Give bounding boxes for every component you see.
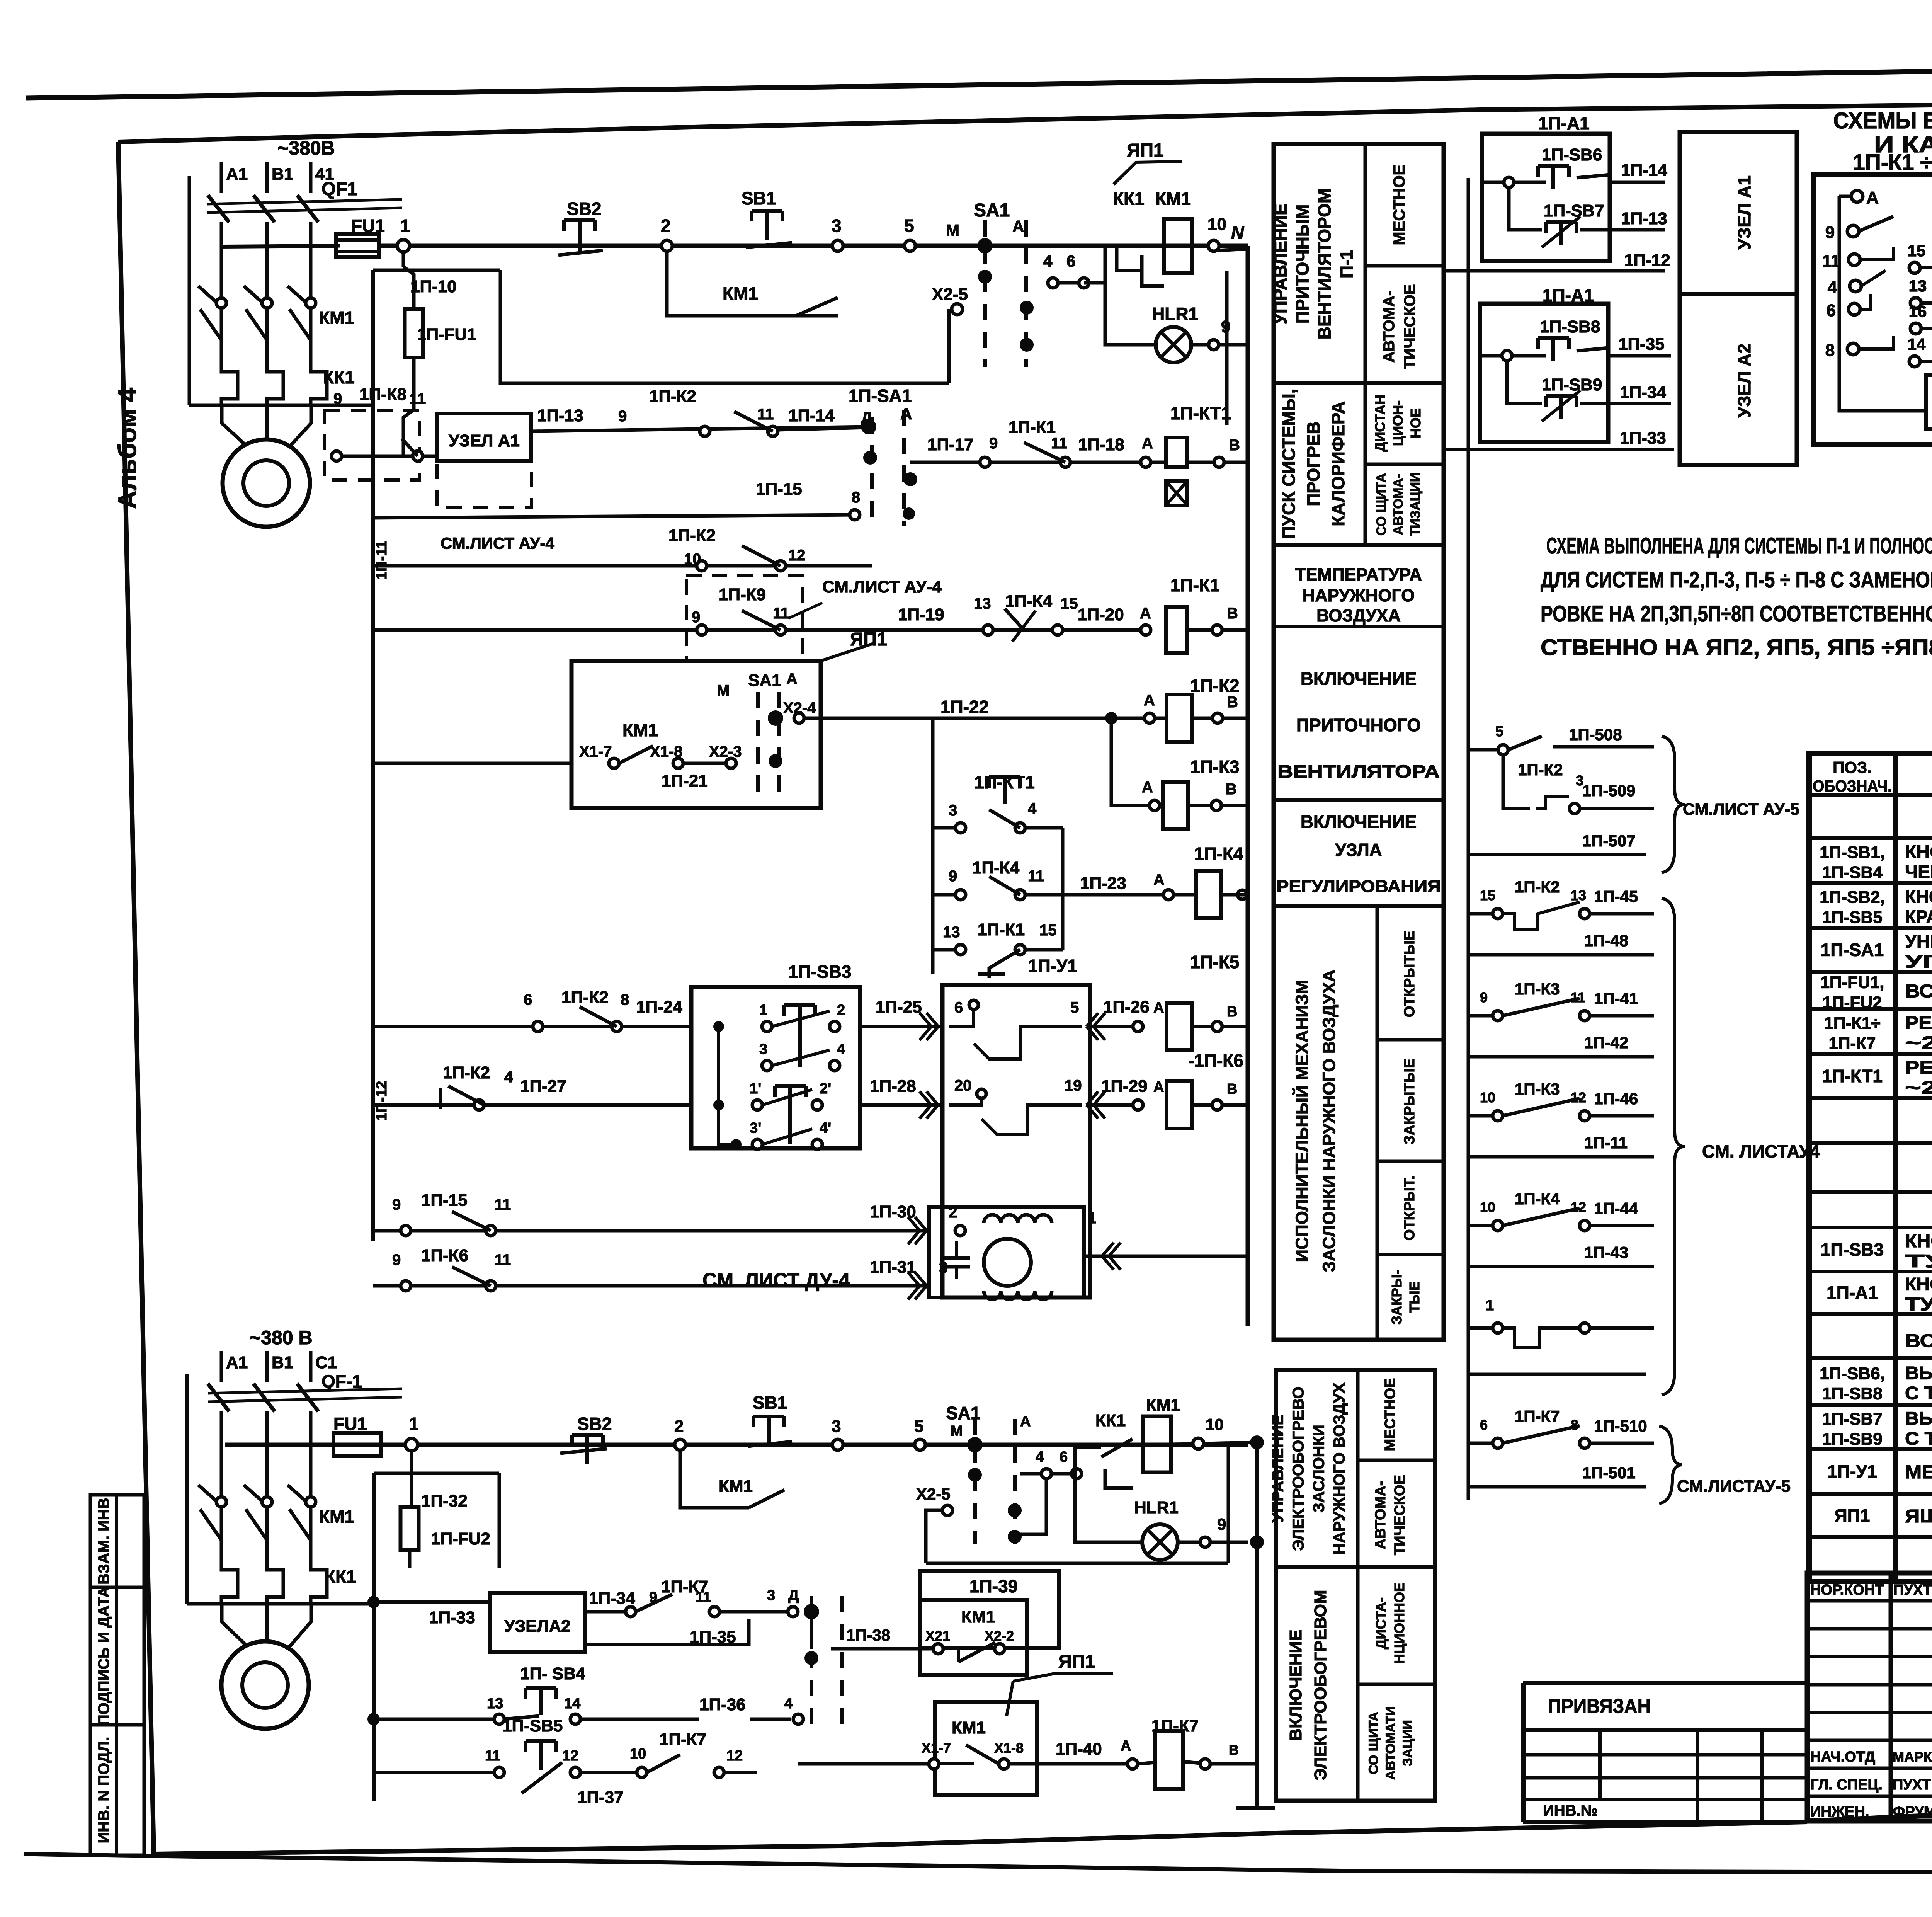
svg-text:4: 4	[504, 1069, 513, 1086]
svg-text:8: 8	[852, 489, 860, 506]
svg-text:КМ1: КМ1	[319, 1507, 354, 1527]
svg-text:1П-14: 1П-14	[1621, 161, 1667, 180]
svg-text:КМ1: КМ1	[723, 283, 758, 303]
svg-text:1П-SВ6: 1П-SВ6	[1542, 145, 1602, 164]
svg-text:6: 6	[1066, 252, 1075, 270]
svg-text:А: А	[1153, 872, 1165, 889]
svg-text:ТИЗАЦИИ: ТИЗАЦИИ	[1408, 473, 1423, 536]
svg-text:15: 15	[1061, 595, 1078, 612]
svg-text:НLR1: НLR1	[1152, 304, 1198, 324]
svg-text:1П-17: 1П-17	[927, 435, 974, 454]
svg-text:1П-40: 1П-40	[1056, 1740, 1102, 1759]
svg-text:ИНВ. N ПОДЛ.: ИНВ. N ПОДЛ.	[95, 1737, 112, 1844]
svg-text:1: 1	[759, 1002, 767, 1018]
svg-text:НОР.КОНТ: НОР.КОНТ	[1810, 1582, 1884, 1598]
svg-text:1П-11: 1П-11	[1584, 1134, 1628, 1152]
svg-text:6: 6	[954, 999, 963, 1016]
svg-text:1П-10: 1П-10	[410, 277, 457, 296]
svg-text:1П-SВ5: 1П-SВ5	[502, 1716, 563, 1735]
svg-text:3: 3	[832, 216, 842, 236]
svg-text:РЕЛЕ ПРОМЕЖУТОЧНОЕ РПУ-2М-0622: РЕЛЕ ПРОМЕЖУТОЧНОЕ РПУ-2М-06222 У3А	[1905, 1012, 1932, 1033]
svg-text:3': 3'	[750, 1120, 761, 1136]
svg-text:ЯП1: ЯП1	[1058, 1651, 1095, 1672]
svg-text:1П-К9: 1П-К9	[719, 585, 766, 604]
svg-text:1П-У1: 1П-У1	[1827, 1461, 1877, 1481]
svg-text:КМ1: КМ1	[1146, 1396, 1180, 1415]
svg-text:12: 12	[1571, 1090, 1586, 1105]
svg-text:10: 10	[1207, 215, 1226, 234]
svg-text:ЯЩИК УПРАВЛЕНИЯ: ЯЩИК УПРАВЛЕНИЯ	[1905, 1506, 1932, 1527]
svg-text:1: 1	[400, 216, 410, 236]
svg-text:А: А	[1020, 1413, 1031, 1430]
svg-text:А: А	[1012, 217, 1024, 235]
svg-text:3: 3	[832, 1417, 841, 1436]
svg-text:Х1-8: Х1-8	[994, 1740, 1024, 1756]
svg-text:СХЕМА ВЫПОЛНЕНА ДЛЯ СИСТЕМЫ: СХЕМА ВЫПОЛНЕНА ДЛЯ СИСТЕМЫ П-1 И ПОЛНОС…	[1546, 533, 1932, 558]
svg-text:1П-34: 1П-34	[589, 1589, 635, 1608]
svg-text:ВСТАВКА ПЛАВКАЯ ВП25-1, 1А: ВСТАВКА ПЛАВКАЯ ВП25-1, 1А ДГО.481.304ТУ	[1905, 981, 1932, 1002]
svg-text:ВЕНТИЛЯТОРОМ: ВЕНТИЛЯТОРОМ	[1315, 189, 1335, 340]
svg-text:УЗЛА: УЗЛА	[1335, 840, 1382, 860]
svg-text:В1: В1	[272, 1353, 293, 1372]
svg-text:А: А	[1142, 435, 1153, 452]
svg-text:А: А	[900, 405, 912, 423]
svg-text:ЗАЦИИ: ЗАЦИИ	[1400, 1720, 1415, 1766]
svg-text:13: 13	[487, 1696, 503, 1712]
svg-text:6: 6	[1060, 1449, 1068, 1465]
svg-text:КНОПКА УПРАВЛЕНИЯ КЕ-01193 ИСП: КНОПКА УПРАВЛЕНИЯ КЕ-01193 ИСП.3 ТОЛКАТЕ…	[1905, 886, 1932, 907]
svg-text:ЯП1: ЯП1	[1127, 140, 1164, 161]
svg-text:1П-К1: 1П-К1	[978, 920, 1025, 939]
svg-text:3: 3	[759, 1041, 767, 1057]
svg-text:КНОПКА УПРАВЛЕНИЯ КЕ-01193 ИСП: КНОПКА УПРАВЛЕНИЯ КЕ-01193 ИСП.1. ТОЛКАТ…	[1905, 841, 1932, 862]
svg-text:1П-501: 1П-501	[1582, 1464, 1636, 1482]
svg-text:1П-SВ1,: 1П-SВ1,	[1820, 843, 1885, 862]
svg-text:АВТОМА-: АВТОМА-	[1372, 1481, 1389, 1549]
svg-text:1П-FU2: 1П-FU2	[431, 1529, 490, 1548]
svg-text:9: 9	[392, 1251, 401, 1268]
svg-text:19: 19	[1065, 1077, 1082, 1094]
svg-text:Х2-5: Х2-5	[932, 285, 968, 304]
svg-text:ВКЛЮЧЕНИЕ: ВКЛЮЧЕНИЕ	[1301, 669, 1417, 689]
svg-text:ДИСТА-: ДИСТА-	[1373, 1597, 1389, 1649]
svg-text:5: 5	[1070, 999, 1079, 1016]
svg-text:9: 9	[618, 408, 627, 425]
svg-text:ВЗАМ. ИНВ: ВЗАМ. ИНВ	[95, 1498, 112, 1584]
svg-text:А: А	[1142, 779, 1153, 796]
svg-text:1П-24: 1П-24	[636, 998, 682, 1016]
svg-text:1П-К2: 1П-К2	[561, 988, 609, 1007]
svg-text:9: 9	[1825, 223, 1835, 242]
svg-text:ОТКРЫТ.: ОТКРЫТ.	[1401, 1176, 1418, 1241]
svg-text:РОВКЕ НА 2П,3П,5П÷8П СООТВЕТСТ: РОВКЕ НА 2П,3П,5П÷8П СООТВЕТСТВЕННО , А …	[1541, 601, 1932, 627]
svg-text:1П-34: 1П-34	[1620, 383, 1666, 402]
svg-text:FU1: FU1	[351, 216, 385, 236]
svg-text:1П-К4: 1П-К4	[1194, 844, 1243, 864]
svg-text:~380В: ~380В	[277, 137, 335, 159]
svg-text:А: А	[1140, 605, 1151, 622]
svg-text:4: 4	[837, 1041, 845, 1057]
svg-text:16: 16	[1909, 302, 1927, 320]
svg-text:СМ.ЛИСТ АУ-4: СМ.ЛИСТ АУ-4	[822, 577, 942, 596]
svg-text:ВЫКЛЮЧАТЕЛЬ КНОПОЧНЫЙ ТИПА К: ВЫКЛЮЧАТЕЛЬ КНОПОЧНЫЙ ТИПА КЕ-011	[1905, 1408, 1932, 1428]
svg-text:1П-К6: 1П-К6	[421, 1246, 468, 1265]
svg-text:1П-14: 1П-14	[788, 406, 835, 425]
svg-text:1П-К2: 1П-К2	[1190, 676, 1240, 696]
svg-text:В: В	[1227, 1081, 1237, 1097]
svg-text:1П-SА1: 1П-SА1	[1821, 940, 1884, 960]
svg-text:1П-48: 1П-48	[1584, 931, 1628, 950]
svg-text:SВ1: SВ1	[753, 1393, 787, 1413]
svg-text:N: N	[1231, 223, 1244, 243]
svg-text:ТЫЕ: ТЫЕ	[1406, 1281, 1422, 1313]
svg-text:АВТОМАТИ: АВТОМАТИ	[1383, 1706, 1398, 1780]
svg-text:SВ2: SВ2	[577, 1414, 612, 1434]
svg-text:~380 В: ~380 В	[250, 1327, 313, 1348]
svg-text:МЕСТНОЕ: МЕСТНОЕ	[1390, 165, 1408, 245]
svg-text:С ТОЛКАТЕЛЕМ КРАСНОГО ЦВЕТА: С ТОЛКАТЕЛЕМ КРАСНОГО ЦВЕТА , ИСП.3	[1905, 1428, 1932, 1449]
svg-text:А1: А1	[226, 1353, 248, 1372]
svg-text:ТИЧЕСКОЕ: ТИЧЕСКОЕ	[1392, 1475, 1408, 1555]
svg-text:8: 8	[621, 991, 629, 1008]
svg-text:1П-К3: 1П-К3	[1515, 980, 1560, 998]
svg-text:А: А	[786, 671, 798, 688]
svg-text:КМ1: КМ1	[952, 1718, 986, 1737]
svg-text:1П-К2: 1П-К2	[649, 387, 696, 406]
svg-text:1П-К7: 1П-К7	[659, 1730, 706, 1749]
svg-text:8: 8	[1571, 1417, 1578, 1433]
svg-text:1П-26: 1П-26	[1103, 998, 1150, 1016]
svg-text:МАРКУЦКИЙ: МАРКУЦКИЙ	[1893, 1748, 1932, 1765]
svg-text:3: 3	[939, 1259, 947, 1276]
svg-text:ОБОЗНАЧ.: ОБОЗНАЧ.	[1813, 777, 1892, 795]
svg-text:А: А	[1153, 1000, 1164, 1016]
svg-text:КМ1: КМ1	[719, 1477, 753, 1496]
svg-text:КНОПОЧНЫЙ ПОСТ УПРАВЛЕНИЯ ПКУ1: КНОПОЧНЫЙ ПОСТ УПРАВЛЕНИЯ ПКУ15-21.331-5…	[1905, 1274, 1932, 1294]
svg-text:2: 2	[674, 1417, 684, 1436]
svg-text:КМ1: КМ1	[622, 720, 658, 740]
svg-text:1П-FU2: 1П-FU2	[1823, 993, 1882, 1012]
svg-text:1П-SВ8: 1П-SВ8	[1822, 1384, 1882, 1403]
svg-text:9: 9	[1217, 1515, 1226, 1533]
svg-text:1П-21: 1П-21	[662, 771, 708, 790]
svg-text:1П-45: 1П-45	[1594, 887, 1638, 906]
svg-text:СМ.ЛИСТ АУ-4: СМ.ЛИСТ АУ-4	[440, 534, 555, 552]
svg-text:КМ1: КМ1	[961, 1607, 995, 1626]
svg-text:11: 11	[1822, 252, 1840, 271]
svg-text:1П-КТ1: 1П-КТ1	[1170, 403, 1231, 423]
svg-text:ПРОГРЕВ: ПРОГРЕВ	[1303, 421, 1323, 506]
svg-text:А: А	[1144, 692, 1155, 709]
svg-text:1П-SВ3: 1П-SВ3	[788, 962, 851, 982]
svg-text:В: В	[1227, 605, 1238, 622]
svg-text:12: 12	[726, 1748, 743, 1764]
svg-text:1П-А1: 1П-А1	[1538, 113, 1590, 133]
svg-text:СХЕМЫ ВЫВОДОВ КОНТАКТОВ: СХЕМЫ ВЫВОДОВ КОНТАКТОВ	[1833, 108, 1932, 133]
svg-text:ДЛЯ СИСТЕМ П-2,П-3, П-5 ÷ П-8: ДЛЯ СИСТЕМ П-2,П-3, П-5 ÷ П-8 С ЗАМЕНОЙ …	[1541, 567, 1932, 592]
svg-text:КК1: КК1	[325, 1566, 356, 1587]
svg-text:Х1-7: Х1-7	[922, 1740, 951, 1756]
svg-text:ВКЛЮЧЕНИЕ: ВКЛЮЧЕНИЕ	[1286, 1629, 1305, 1740]
svg-text:Х2-5: Х2-5	[916, 1485, 951, 1503]
svg-text:9: 9	[392, 1196, 401, 1213]
svg-text:С ТОЛКАТЕЛЕМ ЧЕРНОГО ЦВЕТА,: С ТОЛКАТЕЛЕМ ЧЕРНОГО ЦВЕТА, ИСП.1	[1905, 1383, 1932, 1403]
svg-text:11: 11	[485, 1748, 500, 1764]
svg-text:11: 11	[757, 406, 774, 423]
svg-text:ЗАСЛОНКИ НАРУЖНОГО ВОЗДУХА: ЗАСЛОНКИ НАРУЖНОГО ВОЗДУХА	[1319, 969, 1339, 1272]
svg-text:1П-FU1,: 1П-FU1,	[1820, 973, 1884, 992]
svg-text:6: 6	[524, 991, 532, 1008]
svg-text:14: 14	[1908, 335, 1926, 353]
svg-text:9: 9	[989, 435, 998, 452]
svg-text:1П-20: 1П-20	[1078, 605, 1124, 624]
svg-text:15: 15	[1480, 887, 1495, 903]
svg-text:1П- SВ4: 1П- SВ4	[520, 1664, 585, 1683]
svg-text:КМ1: КМ1	[319, 308, 354, 328]
svg-text:НАЧ.ОТД: НАЧ.ОТД	[1810, 1749, 1875, 1765]
svg-text:1П-К1: 1П-К1	[1170, 575, 1220, 595]
svg-text:1П-509: 1П-509	[1582, 781, 1636, 800]
svg-text:1': 1'	[750, 1081, 761, 1097]
svg-text:Х2-3: Х2-3	[709, 743, 742, 760]
svg-text:1П-38: 1П-38	[846, 1626, 890, 1644]
svg-text:ЗАКРЫТЫЕ: ЗАКРЫТЫЕ	[1401, 1059, 1418, 1145]
svg-text:КРАСНОГО ЦВЕТА, НАДПИСЬ„СТОП“.: КРАСНОГО ЦВЕТА, НАДПИСЬ„СТОП“. ТУ16-642.…	[1905, 906, 1932, 927]
svg-text:СМ.ЛИСТАУ-5: СМ.ЛИСТАУ-5	[1677, 1477, 1791, 1496]
svg-text:А: А	[1866, 188, 1879, 207]
svg-text:УПРАВЛЕНИЕ: УПРАВЛЕНИЕ	[1269, 1415, 1287, 1522]
svg-text:5: 5	[1495, 724, 1503, 740]
svg-text:ВЫКЛЮЧАТЕЛЬ КНОПОЧНЫЙ ТИПА К: ВЫКЛЮЧАТЕЛЬ КНОПОЧНЫЙ ТИПА КЕ-011	[1905, 1363, 1932, 1383]
svg-text:SА1: SА1	[974, 200, 1010, 221]
svg-text:11: 11	[1028, 868, 1044, 885]
svg-text:АВТОМА-: АВТОМА-	[1381, 291, 1398, 363]
svg-text:Х1-8: Х1-8	[650, 743, 683, 760]
svg-text:6: 6	[1480, 1417, 1488, 1433]
svg-text:8: 8	[1825, 341, 1835, 360]
svg-text:1П-SВ2,: 1П-SВ2,	[1820, 888, 1885, 907]
svg-text:ТУ16-642.006-83: ТУ16-642.006-83	[1905, 1251, 1932, 1271]
svg-text:11: 11	[773, 605, 789, 622]
svg-text:1П-36: 1П-36	[699, 1695, 746, 1714]
svg-text:1П-43: 1П-43	[1584, 1243, 1628, 1262]
svg-text:11: 11	[495, 1196, 511, 1213]
svg-text:1П-К4: 1П-К4	[1005, 592, 1053, 611]
svg-text:П-1: П-1	[1337, 250, 1357, 278]
svg-text:А: А	[1153, 1079, 1164, 1095]
svg-text:1П-SВ9: 1П-SВ9	[1822, 1430, 1882, 1449]
svg-text:2': 2'	[820, 1081, 831, 1097]
svg-text:1П-42: 1П-42	[1584, 1033, 1628, 1052]
svg-text:ПРИТОЧНЫМ: ПРИТОЧНЫМ	[1293, 204, 1313, 323]
svg-text:1П-508: 1П-508	[1569, 725, 1622, 744]
svg-text:4': 4'	[820, 1120, 831, 1136]
svg-text:5: 5	[914, 1417, 923, 1436]
svg-text:Д: Д	[788, 1587, 799, 1604]
svg-text:1П-44: 1П-44	[1594, 1199, 1638, 1217]
svg-text:ПРИВЯЗАН: ПРИВЯЗАН	[1548, 1695, 1651, 1718]
svg-text:1П-510: 1П-510	[1594, 1417, 1647, 1435]
svg-text:1П-К1÷: 1П-К1÷	[1824, 1014, 1880, 1033]
svg-text:1П-15: 1П-15	[756, 480, 802, 499]
svg-text:1П-41: 1П-41	[1594, 989, 1638, 1008]
svg-text:КК1: КК1	[1095, 1411, 1126, 1430]
svg-text:5: 5	[904, 216, 914, 236]
svg-text:ПОДПИСЬ И ДАТА: ПОДПИСЬ И ДАТА	[95, 1587, 112, 1726]
svg-text:ЯП1: ЯП1	[1835, 1505, 1870, 1525]
svg-text:1П-13: 1П-13	[1621, 209, 1667, 228]
svg-text:Альбом 4: Альбом 4	[113, 388, 141, 509]
svg-text:14: 14	[564, 1696, 580, 1712]
svg-text:3: 3	[767, 1587, 775, 1604]
svg-text:1П-27: 1П-27	[520, 1077, 566, 1096]
svg-text:ВСТРАИВАЕМЫМИ АППАРАТАМИ:: ВСТРАИВАЕМЫМИ АППАРАТАМИ:	[1905, 1330, 1932, 1351]
svg-text:РЕГУЛИРОВАНИЯ: РЕГУЛИРОВАНИЯ	[1277, 877, 1441, 896]
svg-text:НОЕ: НОЕ	[1408, 408, 1423, 438]
svg-text:10: 10	[684, 551, 701, 568]
svg-text:SА1: SА1	[748, 671, 781, 690]
svg-text:1П-КТ1: 1П-КТ1	[1822, 1066, 1883, 1086]
svg-text:1П-35: 1П-35	[1618, 335, 1665, 354]
svg-text:УП-5312 С86 ТУ16-524.074-: УП-5312 С86 ТУ16-524.074-75	[1905, 951, 1932, 972]
svg-text:В: В	[1227, 694, 1238, 711]
svg-text:ЦИОН-: ЦИОН-	[1390, 400, 1406, 446]
svg-text:9: 9	[333, 390, 342, 407]
svg-text:УЗЕЛ А2: УЗЕЛ А2	[1734, 344, 1754, 418]
svg-text:МЕСТНОЕ: МЕСТНОЕ	[1382, 1378, 1398, 1451]
svg-text:1П-12: 1П-12	[374, 1081, 390, 1121]
svg-text:1П-К7: 1П-К7	[1151, 1716, 1199, 1735]
svg-text:4: 4	[1828, 278, 1837, 297]
svg-text:6: 6	[1827, 301, 1836, 320]
svg-text:1П-46: 1П-46	[1594, 1090, 1638, 1108]
svg-text:~220В ТУ16-647.036-86: ~220В ТУ16-647.036-86	[1905, 1077, 1932, 1098]
svg-text:УЗЕЛА2: УЗЕЛА2	[504, 1617, 570, 1636]
svg-text:С1: С1	[315, 1353, 337, 1372]
svg-text:20: 20	[954, 1077, 972, 1094]
svg-text:4: 4	[1028, 800, 1037, 817]
svg-text:1П-К3: 1П-К3	[1190, 757, 1240, 777]
svg-text:1П-К1 ÷ 1П-К7: 1П-К1 ÷ 1П-К7	[1853, 150, 1932, 175]
svg-text:РЕЛЕ ВРЕМЕНИ РКВ-11-43-122 УХ: РЕЛЕ ВРЕМЕНИ РКВ-11-43-122 УХЛ4	[1905, 1057, 1932, 1078]
svg-text:4: 4	[1043, 252, 1053, 270]
svg-text:ЭЛЕКТРООБОГРЕВО: ЭЛЕКТРООБОГРЕВО	[1289, 1386, 1307, 1551]
svg-text:Х21: Х21	[925, 1628, 950, 1644]
svg-text:1П-19: 1П-19	[898, 605, 944, 624]
svg-text:SВ2: SВ2	[567, 199, 601, 219]
svg-text:А: А	[1121, 1738, 1131, 1754]
svg-text:1П-SВ7: 1П-SВ7	[1544, 201, 1604, 220]
svg-text:СТВЕННО НА ЯП2, ЯП5, ЯП5 ÷ЯП8: СТВЕННО НА ЯП2, ЯП5, ЯП5 ÷ЯП8	[1541, 635, 1932, 660]
svg-text:В: В	[1226, 781, 1237, 798]
svg-text:НАРУЖНОГО: НАРУЖНОГО	[1303, 586, 1415, 605]
svg-text:ЗАСЛОНКИ: ЗАСЛОНКИ	[1310, 1425, 1328, 1513]
svg-text:КК1: КК1	[1113, 189, 1145, 209]
svg-text:2: 2	[661, 216, 671, 236]
svg-text:УПРАВЛЕНИЕ: УПРАВЛЕНИЕ	[1270, 203, 1291, 325]
svg-text:~220В ТУ16-523.331-78: ~220В ТУ16-523.331-78	[1905, 1032, 1932, 1053]
svg-text:1П-SВ8: 1П-SВ8	[1540, 317, 1600, 336]
svg-text:1П-37: 1П-37	[577, 1788, 624, 1807]
svg-text:1: 1	[409, 1414, 419, 1434]
svg-text:13: 13	[943, 924, 960, 941]
svg-text:1: 1	[1486, 1297, 1494, 1314]
svg-text:ИНВ.№: ИНВ.№	[1543, 1802, 1598, 1819]
svg-text:ИСПОЛНИТЕЛЬНЫЙ МЕХАНИЗМ: ИСПОЛНИТЕЛЬНЫЙ МЕХАНИЗМ	[1292, 980, 1312, 1262]
svg-text:1П-32: 1П-32	[421, 1491, 468, 1510]
svg-text:КАЛОРИФЕРА: КАЛОРИФЕРА	[1328, 401, 1348, 526]
svg-text:-1П-К6: -1П-К6	[1188, 1050, 1243, 1071]
svg-text:УЗЕЛ А1: УЗЕЛ А1	[449, 431, 520, 450]
svg-text:ПОЗ.: ПОЗ.	[1833, 758, 1872, 776]
svg-text:1П-SВ3: 1П-SВ3	[1821, 1239, 1884, 1260]
svg-text:ВКЛЮЧЕНИЕ: ВКЛЮЧЕНИЕ	[1301, 812, 1417, 832]
svg-text:FU1: FU1	[333, 1414, 367, 1434]
svg-text:1П-23: 1П-23	[1080, 874, 1126, 893]
svg-text:1П-33: 1П-33	[1620, 429, 1666, 448]
svg-text:ВЕНТИЛЯТОРА: ВЕНТИЛЯТОРА	[1277, 761, 1440, 781]
svg-text:4: 4	[784, 1696, 793, 1712]
svg-text:М: М	[951, 1423, 963, 1439]
svg-text:10: 10	[1480, 1090, 1495, 1105]
svg-text:1П-15: 1П-15	[421, 1191, 468, 1210]
svg-text:1П-11: 1П-11	[374, 541, 390, 580]
svg-text:1П-К4: 1П-К4	[1515, 1190, 1560, 1208]
svg-text:10: 10	[1480, 1199, 1495, 1215]
svg-text:СО ЩИТА: СО ЩИТА	[1366, 1712, 1381, 1774]
svg-text:1П-22: 1П-22	[940, 697, 989, 717]
svg-text:ТЕМПЕРАТУРА: ТЕМПЕРАТУРА	[1295, 565, 1422, 584]
svg-text:2: 2	[837, 1002, 845, 1018]
svg-text:1П-К1: 1П-К1	[1009, 418, 1056, 437]
svg-text:1П-А1: 1П-А1	[1827, 1283, 1878, 1303]
svg-text:10: 10	[630, 1746, 646, 1762]
svg-text:СМ. ЛИСТ ДУ-4: СМ. ЛИСТ ДУ-4	[702, 1269, 850, 1292]
svg-text:КНОПОЧНЫЙ ПОСТ УПРАВЛЕНИЯ ПКЕ: КНОПОЧНЫЙ ПОСТ УПРАВЛЕНИЯ ПКЕ-212-2У3	[1905, 1231, 1932, 1251]
svg-text:15: 15	[1039, 922, 1057, 939]
svg-text:1П-К2: 1П-К2	[1518, 761, 1563, 779]
svg-text:В: В	[1229, 1742, 1239, 1758]
svg-text:ЧЕРНОГО ЦВЕТА,НАДПИСЬ„ПУСК“. Т: ЧЕРНОГО ЦВЕТА,НАДПИСЬ„ПУСК“. ТУ16-642.01…	[1905, 861, 1932, 882]
svg-text:1П-К5: 1П-К5	[1190, 952, 1240, 972]
svg-text:SВ1: SВ1	[742, 188, 776, 208]
svg-text:НLR1: НLR1	[1134, 1498, 1179, 1517]
svg-text:М: М	[946, 221, 959, 239]
svg-text:1П-39: 1П-39	[969, 1576, 1018, 1596]
svg-text:В: В	[1229, 437, 1240, 454]
svg-text:ПУХТЕЛЬ: ПУХТЕЛЬ	[1893, 1582, 1932, 1598]
svg-text:1П-SВ5: 1П-SВ5	[1822, 908, 1882, 927]
svg-text:1П-SВ9: 1П-SВ9	[1542, 375, 1602, 394]
svg-text:QF-1: QF-1	[321, 1371, 362, 1391]
svg-text:1П-К3: 1П-К3	[1515, 1080, 1560, 1098]
svg-text:3: 3	[949, 802, 957, 819]
svg-text:1П-13: 1П-13	[537, 406, 583, 425]
svg-text:1П-18: 1П-18	[1078, 435, 1124, 454]
svg-text:М: М	[717, 682, 730, 699]
svg-text:1П-К8: 1П-К8	[359, 385, 406, 404]
svg-text:Х1-7: Х1-7	[579, 743, 612, 760]
svg-text:НАРУЖНОГО ВОЗДУХ: НАРУЖНОГО ВОЗДУХ	[1330, 1383, 1348, 1555]
svg-text:СО ЩИТА: СО ЩИТА	[1374, 473, 1389, 536]
svg-text:СМ. ЛИСТАУ4: СМ. ЛИСТАУ4	[1702, 1141, 1820, 1161]
svg-text:1П-У1: 1П-У1	[1028, 956, 1077, 976]
svg-text:А1: А1	[226, 165, 248, 184]
svg-text:В1: В1	[272, 165, 293, 184]
svg-text:1П-К7: 1П-К7	[1828, 1034, 1876, 1053]
svg-text:ДИСТАН: ДИСТАН	[1372, 395, 1388, 452]
svg-text:11: 11	[1051, 435, 1067, 452]
